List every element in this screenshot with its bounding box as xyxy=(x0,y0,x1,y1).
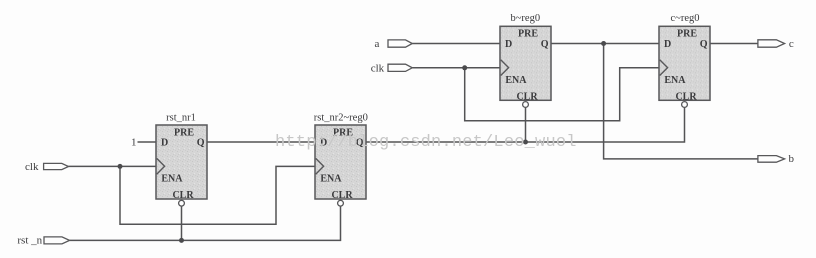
svg-text:b~reg0: b~reg0 xyxy=(511,13,541,24)
svg-text:c~reg0: c~reg0 xyxy=(671,13,700,24)
svg-text:rst _n: rst _n xyxy=(17,235,42,247)
svg-text:c: c xyxy=(789,38,794,50)
svg-text:rst_nr1: rst_nr1 xyxy=(166,112,196,123)
svg-text:b: b xyxy=(789,153,795,165)
svg-text:clk: clk xyxy=(371,62,385,74)
svg-text:a: a xyxy=(375,38,380,50)
svg-text:1: 1 xyxy=(131,136,137,148)
svg-text:http://blog.csdn.net/Leo_wuol: http://blog.csdn.net/Leo_wuol xyxy=(275,133,577,152)
svg-text:clk: clk xyxy=(25,161,39,173)
svg-text:rst_nr2~reg0: rst_nr2~reg0 xyxy=(314,112,368,123)
